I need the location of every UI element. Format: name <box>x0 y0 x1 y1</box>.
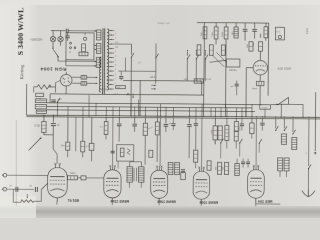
wire Umst to bus <box>264 109 266 117</box>
switch S1 mains <box>52 41 54 48</box>
selector inner circle <box>83 37 86 40</box>
anode resistor <box>258 42 262 52</box>
svg-text:1M: 1M <box>253 43 255 46</box>
bus line 2 <box>47 106 252 108</box>
switch contact col a <box>275 119 277 129</box>
svg-text:2: 2 <box>115 37 116 39</box>
box Umst <box>260 105 271 110</box>
resistor 2000 <box>225 23 227 27</box>
tube top leads <box>112 117 114 169</box>
bus junction dots <box>43 115 44 116</box>
wire zigzag left down <box>33 87 35 93</box>
terminal block box3 <box>36 110 46 113</box>
wire HT rail drop left <box>203 23 206 117</box>
capacitor col x242 <box>241 118 243 123</box>
resistor right col <box>265 23 267 27</box>
primary tap arrows <box>95 45 97 47</box>
capacitor col x135 <box>134 118 136 124</box>
tube RENS 1204 no4 <box>193 171 210 199</box>
IF coil A <box>127 167 133 183</box>
wire detector vertical <box>155 43 157 83</box>
IF transformer can dashed <box>117 145 134 162</box>
output coil B <box>292 137 297 149</box>
terminal block box2 <box>35 104 46 108</box>
capacitor tube3 grid <box>149 150 153 157</box>
svg-text:2: 2 <box>115 69 116 71</box>
secondary taps <box>109 30 114 32</box>
switch to block wires <box>212 55 224 67</box>
capacitor C1 series <box>65 29 67 33</box>
svg-text:4: 4 <box>115 73 116 75</box>
switch contact near terminal <box>57 101 58 102</box>
resistor 500 <box>203 27 207 39</box>
capacitor block 0.5/1u <box>275 27 284 40</box>
wire x125 upper <box>125 58 127 71</box>
svg-text:4: 4 <box>115 33 116 35</box>
transformer primary winding c <box>96 57 100 67</box>
resistor coupling 50000 <box>67 176 77 180</box>
switch contact x259 <box>259 143 260 144</box>
resistor pair x220b <box>218 126 223 140</box>
terminal TA2 <box>3 187 7 191</box>
svg-text:RGN 1064: RGN 1064 <box>40 67 66 72</box>
HT rail top <box>197 22 269 25</box>
svg-text:µ0.05: µ0.05 <box>101 89 107 91</box>
resistor col x215 1000 <box>214 118 216 126</box>
capacitor u4 mid <box>235 83 239 85</box>
resistor col x83 <box>82 117 84 141</box>
svg-text:110: 110 <box>115 46 118 48</box>
tube REN 904 <box>253 60 268 75</box>
grid wire left <box>246 67 253 69</box>
svg-text:Gmst: Gmst <box>252 87 257 90</box>
cathode resistor Gmst <box>259 75 261 81</box>
svg-text:Körting: Körting <box>19 64 24 79</box>
svg-text:µ0,003: µ0,003 <box>229 70 237 72</box>
switch contact on tap wire <box>131 57 132 58</box>
voltage selector box <box>66 33 94 60</box>
capacitor 0.1 col <box>244 23 246 29</box>
tube RENS 1204 no2 <box>104 170 121 198</box>
switch contact col b <box>283 119 285 129</box>
svg-text:2: 2 <box>115 55 116 57</box>
tap arrows mid <box>154 85 156 87</box>
IF wires <box>129 162 131 167</box>
bus line 1 <box>47 103 262 105</box>
lower coil B <box>284 158 289 171</box>
resistor col x209 <box>207 161 211 171</box>
rectifier tube RGN 1064 <box>60 74 72 86</box>
svg-text:1311: 1311 <box>305 28 309 34</box>
pilot lamp La1 <box>52 31 54 37</box>
coil pair tubes3-4 A <box>168 162 173 174</box>
bus line 3 <box>46 110 254 112</box>
capacitor col x119 <box>118 117 120 123</box>
coil pair tubes3-4 B <box>175 163 180 175</box>
capacitor col x196 <box>195 118 197 123</box>
resistor col 227 300 <box>224 162 228 174</box>
capacitor mid x121 <box>120 71 122 75</box>
svg-text:13m: 13m <box>61 145 65 147</box>
wire choke corner to bus <box>288 103 303 105</box>
filament winding 1 <box>72 76 81 78</box>
svg-text:.003: .003 <box>117 87 121 89</box>
tube lead T1 top <box>56 161 58 163</box>
output coil A <box>281 134 286 145</box>
resistor above tube4 <box>195 125 197 150</box>
volume potentiometer <box>21 200 34 203</box>
row2 resistor c <box>221 45 225 56</box>
wire pennant to bus <box>280 104 282 117</box>
transformer secondary winding lower left <box>99 57 101 92</box>
resistor in selector <box>82 44 86 52</box>
resistor col 219 200 <box>217 162 221 174</box>
svg-text:1.000: 1.000 <box>211 129 213 135</box>
resistor barretter <box>79 52 88 56</box>
antenna arrow <box>314 152 316 154</box>
capacitor right x262 <box>261 119 263 123</box>
svg-text:S 3400 W/WL: S 3400 W/WL <box>16 8 25 56</box>
svg-text:REN 904: REN 904 <box>277 67 291 71</box>
capacitor u5 b <box>34 187 36 192</box>
capacitor 0.003 block <box>209 60 226 62</box>
bottom connecting wires <box>56 202 58 204</box>
small box x91 <box>91 117 93 143</box>
coupling box <box>81 176 86 180</box>
IF coil B <box>139 167 145 183</box>
svg-text:220: 220 <box>115 42 118 44</box>
capacitor 100 <box>235 23 237 27</box>
svg-text:4: 4 <box>115 60 116 62</box>
svg-text:2000: 2000 <box>222 31 224 37</box>
x mark mid <box>127 93 130 96</box>
switch contact x240 <box>239 142 240 143</box>
resistor (713) <box>43 115 45 121</box>
box 4000 <box>181 173 186 180</box>
switch contact x221 <box>214 140 216 144</box>
resistor col x227 <box>226 118 228 125</box>
switch contact col c <box>292 119 294 132</box>
svg-text:RENS 1204: RENS 1204 <box>110 199 129 203</box>
svg-text:Ausgl. ~22: Ausgl. ~22 <box>158 22 171 25</box>
resistor col x236 lower <box>234 132 238 142</box>
wire tube5 bottom right <box>256 203 280 205</box>
bus vertical ticks <box>56 106 58 115</box>
power transformer T1 core <box>102 28 105 94</box>
resistor col x157 <box>156 118 158 122</box>
resistor right x252 <box>251 118 253 122</box>
resistor 13m column <box>67 117 69 142</box>
svg-text:(713): (713) <box>34 125 40 127</box>
svg-text:50000: 50000 <box>70 173 76 175</box>
grid capacitor tube2 <box>111 150 115 152</box>
earth anchor <box>302 190 315 197</box>
svg-text:6: 6 <box>115 64 116 66</box>
wire HT line <box>50 94 204 95</box>
svg-text:RES 164: RES 164 <box>258 200 272 204</box>
capacitor between <box>181 169 185 171</box>
svg-text:2: 2 <box>115 82 116 84</box>
wave band switch contacts <box>186 52 188 56</box>
tube RES 164 output <box>248 170 265 199</box>
wire mid y71 <box>118 70 155 72</box>
transformer primary winding b <box>96 43 100 53</box>
capacitor on supply line <box>51 99 56 101</box>
row2 resistor b <box>209 45 213 56</box>
lower coil A <box>278 158 283 171</box>
svg-text:4: 4 <box>115 51 116 53</box>
capacitor col x166 <box>165 118 167 124</box>
wire selector to transformer tap2 <box>58 60 96 62</box>
terminal block box1 <box>35 99 46 103</box>
svg-text:Tö 52B: Tö 52B <box>68 199 80 203</box>
svg-text:µ0.2: µ0.2 <box>150 76 155 79</box>
capacitor u5 a <box>15 187 17 192</box>
terminal TA1 <box>3 173 7 177</box>
resistor 5000 <box>215 23 217 27</box>
svg-text:4: 4 <box>115 78 116 80</box>
capacitor u1 <box>52 115 54 122</box>
wire drop x76 <box>75 117 77 151</box>
IF core lines <box>133 168 135 181</box>
capacitor above output tube a <box>242 159 244 161</box>
selector studs <box>70 42 72 44</box>
box 003 <box>116 85 126 88</box>
capacitor above output tube b <box>247 159 249 161</box>
capacitor 0.5 col <box>254 23 256 29</box>
wire selector to transformer tap3 <box>66 65 96 67</box>
speaker pennant <box>279 97 289 104</box>
svg-text:RENS 1264: RENS 1264 <box>157 200 176 204</box>
wire mains top <box>51 30 66 32</box>
wire rectifier cathode down <box>65 86 67 94</box>
IF can leads <box>117 161 119 168</box>
tube AF Tö 52B <box>48 168 68 198</box>
wire join detector <box>44 134 53 136</box>
capacitor col x173 <box>172 118 174 123</box>
svg-text:≈110/220V: ≈110/220V <box>30 37 43 41</box>
svg-text:RENS 1204: RENS 1204 <box>199 201 218 205</box>
resistor col x236 upper <box>235 118 237 121</box>
arrow down mid <box>132 94 134 96</box>
filament winding 2 <box>72 82 81 84</box>
tube RENS 1264 no3 <box>151 170 168 198</box>
wire x138 to bus <box>138 100 140 116</box>
transformer primary winding a <box>97 30 101 40</box>
coil col 237 <box>235 164 239 176</box>
resistor col x106 <box>105 117 107 121</box>
svg-text:Umst: Umst <box>263 106 268 109</box>
wire selector to transformer tap1 <box>71 30 96 32</box>
resistor heater zigzag <box>34 86 37 88</box>
resistor field supply <box>194 79 203 83</box>
earth switch <box>308 119 310 166</box>
capacitor col x189 <box>188 118 190 124</box>
resistor 250 <box>249 42 253 52</box>
pilot lamp La2 <box>60 31 62 37</box>
box col x145 <box>144 118 146 124</box>
wire secondary tap to wave switch <box>114 43 131 45</box>
svg-text:(1+4): (1+4) <box>206 79 211 81</box>
wire x89 to bus <box>88 95 90 117</box>
wiper arrow <box>27 197 28 199</box>
wire right bend down <box>267 23 270 96</box>
capacitor C2 <box>67 33 69 36</box>
bus line 4 main double <box>26 115 319 117</box>
wire bus left riser <box>25 99 27 115</box>
wire zigzag right down <box>54 83 56 93</box>
riser extension <box>26 84 28 99</box>
hum pot box <box>36 93 44 97</box>
wire anode supply mid <box>123 79 201 82</box>
antenna wire <box>314 92 316 151</box>
svg-text:ℓ°: ℓ° <box>306 152 308 155</box>
row2 resistor a <box>197 45 201 56</box>
tuning pointer arrow <box>29 138 41 150</box>
transformer secondary winding <box>107 29 109 90</box>
